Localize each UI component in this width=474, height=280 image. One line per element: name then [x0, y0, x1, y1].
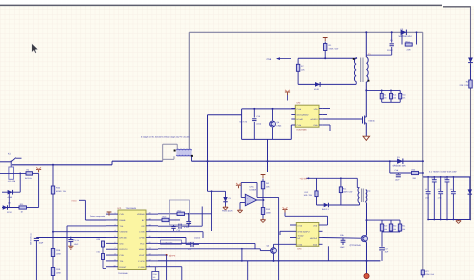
svg-text:2200P: 2200P	[387, 49, 393, 52]
svg-text:0.1UF(+5%): 0.1UF(+5%)	[162, 241, 173, 244]
svg-text:22R: 22R	[407, 49, 411, 52]
svg-text:14: 14	[149, 247, 151, 250]
svg-text:18: 18	[149, 223, 151, 226]
svg-text:2: 2	[115, 217, 116, 220]
svg-text:VMAX: VMAX	[139, 248, 145, 251]
svg-text:220K: 220K	[56, 271, 61, 274]
svg-text:Driver comparator: Driver comparator	[90, 215, 105, 218]
svg-text:C21: C21	[97, 251, 100, 254]
svg-text:C-VB: C-VB	[297, 108, 302, 111]
svg-text:VDRAIN: VDRAIN	[137, 213, 145, 216]
svg-text:A6130-2: A6130-2	[310, 118, 317, 121]
svg-text:19: 19	[149, 217, 151, 220]
svg-text:20: 20	[149, 212, 151, 215]
svg-text:RAMB: RAMB	[120, 219, 126, 222]
svg-text:7: 7	[115, 247, 116, 250]
svg-text:R24: R24	[393, 94, 396, 97]
svg-text:ICE2 A265/E2: ICE2 A265/E2	[297, 114, 309, 117]
svg-text:TDA16846: TDA16846	[126, 207, 137, 210]
svg-text:OPCAB: OPCAB	[120, 237, 128, 240]
svg-text:C9: C9	[450, 188, 452, 191]
svg-text:POR: POR	[153, 273, 158, 276]
svg-text:3.9: 3.9	[153, 276, 156, 279]
svg-text:C7: C7	[438, 188, 440, 191]
svg-text:BAV2-1: BAV2-1	[322, 208, 330, 211]
svg-text:LPSB: LPSB	[139, 237, 145, 240]
svg-text:BT A60: BT A60	[297, 118, 303, 121]
svg-text:Q?2SK2545: Q?2SK2545	[350, 244, 362, 247]
svg-text:C-VB: C-VB	[298, 225, 303, 228]
svg-text:5: 5	[115, 235, 116, 238]
svg-text:104P: 104P	[39, 242, 44, 245]
svg-text:470K / 2W: 470K / 2W	[329, 47, 339, 50]
svg-text:P6KE 401R: P6KE 401R	[222, 210, 233, 213]
svg-text:C-SB: C-SB	[298, 244, 303, 247]
svg-text:R29: R29	[384, 225, 387, 228]
svg-text:ANG12: ANG12	[194, 237, 200, 240]
svg-text:MKT-X2 C11: MKT-X2 C11	[30, 232, 33, 244]
svg-text:MODGAIN: MODGAIN	[182, 241, 192, 244]
svg-text:104P: 104P	[395, 179, 400, 182]
svg-text:LSVB: LSVB	[139, 231, 145, 234]
svg-text:9: 9	[115, 258, 116, 261]
svg-text:C?4 14: C?4 14	[73, 239, 79, 242]
svg-text:5.1 750mA / 100V 4mA 10W: 5.1 750mA / 100V 4mA 10W	[429, 171, 457, 174]
svg-text:FCC: FCC	[140, 242, 145, 245]
svg-text:R4: R4	[384, 94, 386, 97]
svg-text:K2545: K2545	[369, 120, 376, 123]
svg-text:VSENSE: VSENSE	[120, 231, 129, 234]
svg-text:100K: 100K	[266, 212, 271, 215]
svg-text:RSTFCS: RSTFCS	[120, 248, 129, 251]
svg-text:R44: R44	[402, 94, 405, 97]
svg-text:100K / 1W: 100K / 1W	[425, 273, 434, 276]
svg-text:C6: C6	[431, 176, 433, 179]
svg-text:C5: C5	[425, 188, 427, 191]
svg-text:17: 17	[149, 229, 151, 232]
svg-text:(15n): (15n)	[257, 123, 262, 126]
svg-text:C-SEN: C-SEN	[138, 266, 145, 269]
svg-text:16: 16	[149, 235, 151, 238]
svg-text:5 stage on NL 4x100ms temp ran: 5 stage on NL 4x100ms temp range asy TV …	[141, 135, 189, 138]
svg-text:8: 8	[115, 253, 116, 256]
svg-text:ICE2A265: ICE2A265	[297, 129, 308, 132]
svg-text:11: 11	[149, 264, 151, 267]
svg-text:3: 3	[115, 223, 116, 226]
svg-text:RSLMT: RSLMT	[120, 266, 128, 269]
svg-text:104P: 104P	[340, 246, 345, 249]
svg-text:@TP5: @TP5	[169, 254, 176, 257]
svg-text:RX2: RX2	[412, 169, 416, 172]
svg-text:SFH6 W/OP-2: SFH6 W/OP-2	[298, 231, 310, 234]
svg-text:R?7: R?7	[425, 270, 428, 273]
svg-text:10: 10	[114, 264, 116, 267]
svg-text:10K: 10K	[266, 185, 270, 188]
svg-text:LM358: LM358	[250, 189, 257, 192]
svg-text:SR2160 6A4: SR2160 6A4	[399, 35, 413, 38]
svg-text:R30: R30	[393, 225, 396, 228]
svg-text:A6130-2: A6130-2	[310, 237, 317, 240]
svg-text:HVCC: HVCC	[72, 199, 78, 202]
svg-text:-: -	[247, 196, 248, 200]
svg-text:VOUT: VOUT	[139, 254, 145, 257]
svg-text:R31: R31	[402, 225, 405, 228]
svg-text:22K / 2W: 22K / 2W	[460, 84, 470, 87]
svg-text:SR5100 10A: SR5100 10A	[393, 165, 406, 168]
svg-text:1: 1	[115, 212, 116, 215]
svg-text:10R / 2W: 10R / 2W	[304, 194, 312, 197]
svg-text:CSB: CSB	[120, 254, 125, 257]
svg-text:C-SB: C-SB	[297, 124, 302, 127]
svg-text:4Y1-12B: 4Y1-12B	[8, 180, 16, 183]
svg-text:CN8: CN8	[267, 58, 272, 61]
svg-text:15: 15	[149, 241, 151, 244]
svg-text:CVB: CVB	[120, 213, 125, 216]
svg-text:6: 6	[115, 241, 116, 244]
svg-text:12: 12	[149, 258, 151, 261]
svg-text:C-SCN: C-SCN	[138, 260, 145, 263]
svg-text:C8: C8	[444, 176, 446, 179]
svg-text:R26: R26	[97, 238, 100, 241]
svg-text:4: 4	[115, 229, 116, 232]
svg-text:TDA16846: TDA16846	[118, 272, 128, 275]
svg-text:220K: 220K	[56, 252, 61, 255]
svg-text:6K2/1W: 6K2/1W	[25, 177, 32, 180]
svg-text:510R / 1W: 510R / 1W	[56, 190, 66, 193]
svg-text:13: 13	[149, 253, 151, 256]
svg-text:U?A: U?A	[250, 186, 255, 189]
svg-text:104P: 104P	[74, 243, 79, 246]
svg-text:100R / 2W: 100R / 2W	[343, 190, 353, 193]
svg-text:MKT-X2: MKT-X2	[240, 121, 248, 124]
svg-text:OSC: OSC	[120, 242, 125, 245]
